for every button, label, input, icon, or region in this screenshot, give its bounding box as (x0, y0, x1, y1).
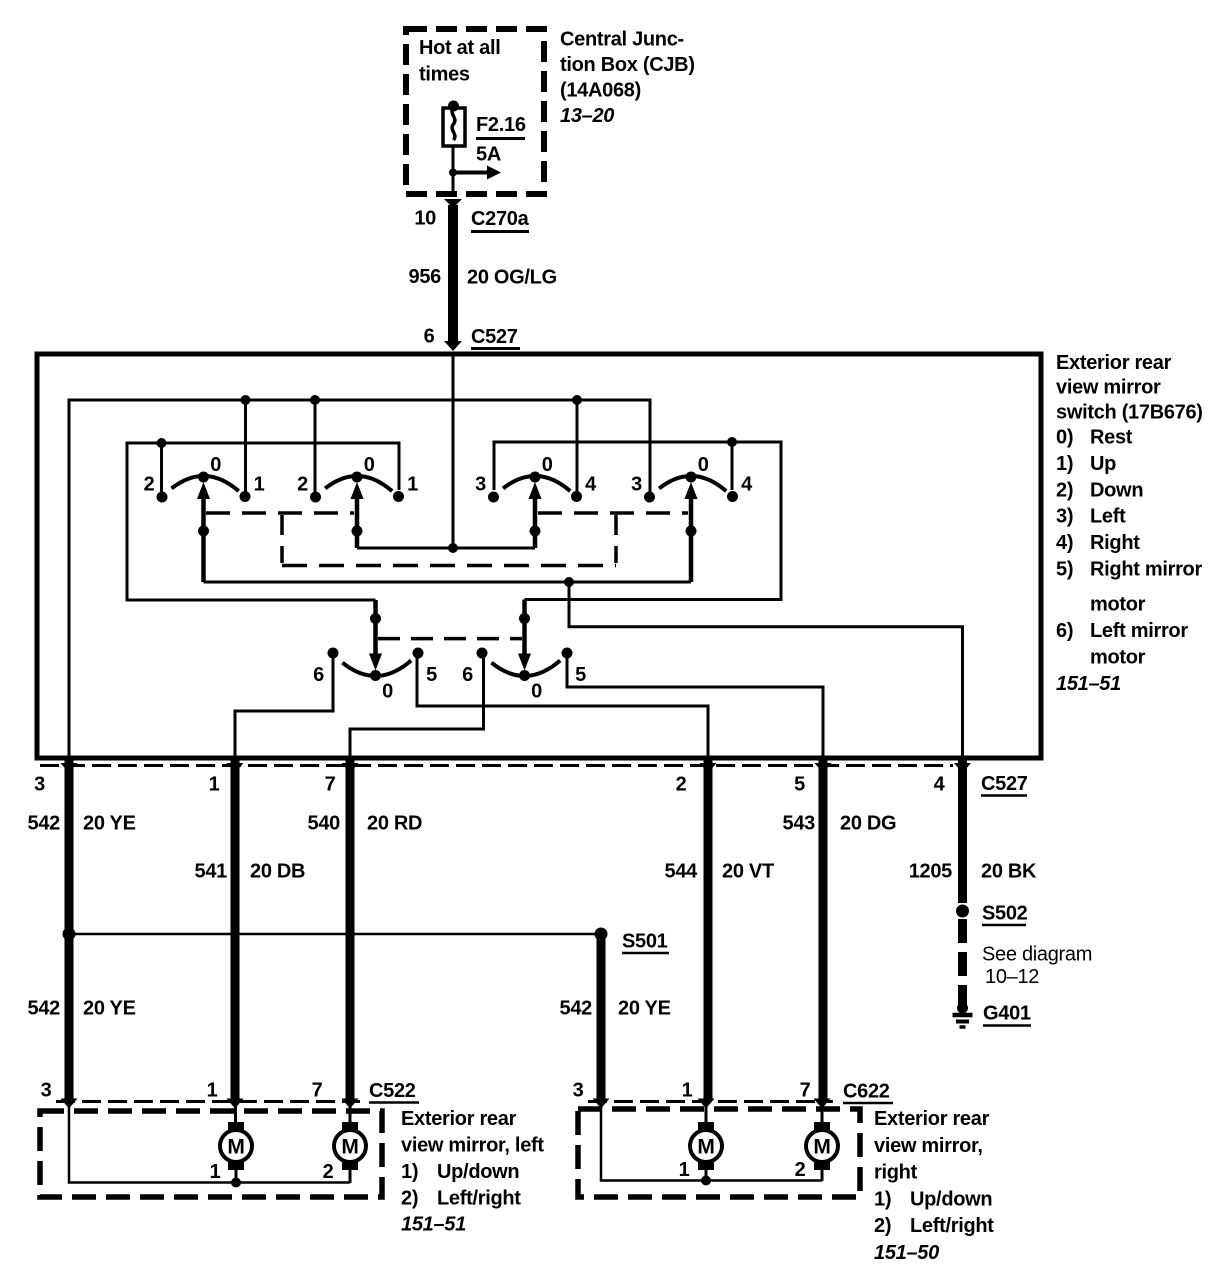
svg-text:S501: S501 (622, 931, 668, 953)
svg-text:2: 2 (795, 1159, 806, 1181)
svg-text:view mirror,: view mirror, (874, 1135, 983, 1157)
wire: C527 pin 6 feed inside box (452, 354, 455, 548)
svg-text:1: 1 (682, 1080, 693, 1102)
svg-text:0): 0) (1056, 427, 1073, 449)
connector C522 (dashed line) (56, 1100, 360, 1103)
svg-text:0: 0 (531, 681, 542, 703)
svg-text:20 VT: 20 VT (722, 861, 774, 883)
wire: riser to SW3 right contact (576, 400, 579, 492)
svg-text:Left mirror: Left mirror (1090, 620, 1188, 642)
svg-text:1: 1 (679, 1159, 690, 1181)
svg-text:Left/right: Left/right (910, 1215, 994, 1237)
selector arrow/shaft at x=375.5 (369, 654, 382, 671)
wire dashed to ground (958, 919, 967, 1005)
wire 542 20 YE (S501 to C622 pin 3) (597, 934, 606, 1099)
svg-text:Right mirror: Right mirror (1090, 559, 1202, 581)
svg-text:switch (17B676): switch (17B676) (1056, 402, 1203, 424)
svg-text:6: 6 (462, 664, 473, 686)
svg-text:0: 0 (542, 454, 553, 476)
svg-text:13–20: 13–20 (560, 105, 614, 127)
svg-text:Right: Right (1090, 532, 1140, 554)
svg-text:C527: C527 (471, 326, 518, 348)
wire: SW6 contact 5 to pin 5 (567, 658, 823, 758)
svg-text:C522: C522 (369, 1080, 416, 1102)
svg-text:1: 1 (207, 1080, 218, 1102)
svg-text:2: 2 (297, 474, 308, 496)
pin 5 wire at C527 (815, 763, 832, 773)
motor M at x=822 (814, 1122, 830, 1132)
wire: riser to SW1 left contact (160, 443, 163, 492)
svg-text:Central Junc-: Central Junc- (560, 29, 684, 51)
svg-text:Up/down: Up/down (437, 1161, 519, 1183)
svg-text:7: 7 (800, 1080, 811, 1102)
wire: riser to SW4 right contact (731, 442, 734, 490)
svg-text:M: M (813, 1136, 830, 1159)
svg-text:4: 4 (741, 474, 753, 496)
exterior rear view mirror, right (dashed box) (578, 1109, 860, 1197)
svg-text:542: 542 (28, 998, 61, 1020)
svg-text:6: 6 (313, 664, 324, 686)
svg-text:7: 7 (325, 774, 336, 796)
svg-text:4: 4 (585, 474, 597, 496)
motor M at x=706 (698, 1122, 714, 1132)
pin 7 at C522 (342, 1099, 359, 1109)
mechanical linkage (dashed) upper paddles (206, 511, 354, 515)
pin 1 wire at C527 (227, 763, 244, 773)
svg-text:3: 3 (34, 774, 45, 796)
wire: SW2/SW3 shaft tie with C527 feed (357, 547, 535, 550)
svg-text:G401: G401 (983, 1003, 1031, 1025)
svg-text:Rest: Rest (1090, 427, 1133, 449)
arrow: feed to other circuits (right) (453, 171, 487, 175)
exterior rear view mirror switch box (37, 354, 1041, 758)
wire: C622 pin 3 to motor commons (601, 1106, 822, 1181)
svg-text:20 YE: 20 YE (83, 998, 136, 1020)
exterior rear view mirror, left (dashed box) (40, 1111, 382, 1197)
svg-text:(14A068): (14A068) (560, 80, 641, 102)
svg-text:7: 7 (312, 1080, 323, 1102)
svg-text:10–12: 10–12 (985, 966, 1039, 988)
svg-text:C527: C527 (981, 773, 1028, 795)
wire: pin 1 to motor 1 (234, 1106, 237, 1122)
svg-text:Left: Left (1090, 506, 1126, 528)
svg-text:1: 1 (210, 1161, 221, 1183)
svg-text:20 DB: 20 DB (250, 861, 305, 883)
svg-text:20 YE: 20 YE (83, 813, 136, 835)
svg-text:Up/down: Up/down (910, 1188, 992, 1210)
wire: SW5 contact 6 to pin 1 (235, 658, 333, 758)
svg-text:1: 1 (254, 474, 265, 496)
svg-text:2: 2 (676, 774, 687, 796)
svg-text:M: M (227, 1136, 244, 1159)
Central Junction Box (dashed box, hot at all times) (406, 29, 544, 194)
pin 3 wire at C527 (61, 763, 78, 773)
svg-text:1): 1) (874, 1188, 891, 1210)
connector C527 (dashed line) (40, 764, 953, 767)
svg-text:1): 1) (1056, 453, 1073, 475)
svg-text:Exterior rear: Exterior rear (401, 1108, 517, 1130)
selector switch wiper arc (6-0-5) at x=524.5 (484, 656, 565, 676)
svg-text:4): 4) (1056, 532, 1073, 554)
wire: bus3 (SW1/SW4 shaft tie) (204, 581, 692, 584)
svg-text:2): 2) (1056, 479, 1073, 501)
switch arrow/shaft at x=357 (351, 482, 364, 499)
motor M at x=236 (228, 1122, 244, 1132)
svg-text:F2.16: F2.16 (476, 114, 526, 136)
svg-text:5: 5 (794, 774, 805, 796)
wire: bus3 branch to pin 4 (569, 582, 963, 758)
svg-text:2): 2) (874, 1215, 891, 1237)
switch arrow/shaft at x=691 (685, 482, 698, 499)
svg-text:M: M (697, 1136, 714, 1159)
wire: pin 7 to motor 2 (349, 1106, 352, 1122)
motor M at x=350 (342, 1122, 358, 1132)
wire 541 20 DB (pin 1) (231, 758, 240, 1099)
svg-text:1): 1) (401, 1161, 418, 1183)
pin 7 wire at C527 (342, 763, 359, 773)
wire: SW6 contact 6 to pin 7 (350, 658, 484, 758)
svg-text:3: 3 (41, 1080, 52, 1102)
svg-text:20 BK: 20 BK (981, 861, 1037, 883)
svg-text:151–51: 151–51 (1056, 673, 1121, 695)
svg-text:20 DG: 20 DG (840, 813, 896, 835)
svg-text:542: 542 (560, 998, 593, 1020)
svg-text:Exterior rear: Exterior rear (874, 1108, 990, 1130)
svg-text:M: M (341, 1136, 358, 1159)
svg-text:times: times (419, 64, 470, 86)
pin 1 at C622 (698, 1099, 715, 1109)
wire: riser to SW1 right contact (244, 400, 247, 492)
wire 542 20 YE (pin 3) (65, 758, 74, 1099)
svg-text:See diagram: See diagram (982, 944, 1092, 966)
svg-text:C622: C622 (843, 1081, 890, 1103)
svg-text:1205: 1205 (909, 861, 952, 883)
svg-text:Left/right: Left/right (437, 1187, 521, 1209)
svg-text:6: 6 (424, 326, 435, 348)
svg-text:tion Box (CJB): tion Box (CJB) (560, 54, 695, 76)
svg-text:motor: motor (1090, 647, 1146, 669)
svg-text:0: 0 (698, 454, 709, 476)
svg-text:2: 2 (323, 1161, 334, 1183)
svg-text:0: 0 (382, 681, 393, 703)
svg-text:20 YE: 20 YE (618, 998, 671, 1020)
svg-text:956: 956 (409, 266, 442, 288)
splice S502 (956, 905, 969, 918)
connector C622 (dashed line) (588, 1100, 833, 1103)
svg-text:0: 0 (210, 454, 221, 476)
connector C270a arrow (444, 199, 462, 208)
svg-text:20 OG/LG: 20 OG/LG (467, 267, 557, 289)
svg-text:Hot at all: Hot at all (419, 37, 500, 59)
svg-text:5): 5) (1056, 559, 1073, 581)
pin 3 at C622 (593, 1099, 610, 1109)
wire: bus2-right (494, 442, 781, 600)
svg-text:541: 541 (195, 861, 228, 883)
svg-text:3: 3 (631, 474, 642, 496)
svg-text:3: 3 (573, 1080, 584, 1102)
wire: bus1 (pin 3 common) (69, 400, 650, 758)
svg-text:542: 542 (28, 813, 61, 835)
pin 1 at C522 (227, 1099, 244, 1109)
svg-text:151–50: 151–50 (874, 1242, 939, 1264)
fuse F2.16 5A (448, 101, 459, 112)
switch wiper arc (3-0-4) at x=691 (652, 476, 731, 495)
svg-text:10: 10 (414, 208, 436, 230)
wire: SW5 contact 5 to pin 2 (417, 658, 708, 758)
svg-text:S502: S502 (982, 903, 1028, 925)
switch arrow/shaft at x=203.5 (197, 482, 210, 499)
svg-text:4: 4 (934, 774, 946, 796)
wire: pin 7 to motor 2 (right) (821, 1106, 824, 1122)
svg-text:3: 3 (475, 474, 486, 496)
svg-text:6): 6) (1056, 620, 1073, 642)
svg-text:0: 0 (364, 454, 375, 476)
svg-text:C270a: C270a (471, 208, 530, 230)
svg-text:motor: motor (1090, 594, 1146, 616)
svg-text:151–51: 151–51 (401, 1214, 466, 1236)
wire 956 20 OG/LG (thick) (448, 205, 458, 342)
wire 540 20 RD (pin 7) (346, 758, 355, 1099)
pin 3 at C522 (61, 1099, 78, 1109)
svg-text:right: right (874, 1162, 918, 1184)
switch arrow/shaft at x=535 (529, 482, 542, 499)
wire: pin 1 to motor 1 (right) (705, 1106, 708, 1122)
pin 7 at C622 (814, 1099, 831, 1109)
connector C527 entry arrow (444, 341, 462, 351)
svg-text:Exterior rear: Exterior rear (1056, 352, 1172, 374)
selector arrow/shaft at x=524.5 (518, 654, 531, 671)
pin 4 wire at C527 (954, 763, 971, 773)
svg-text:5: 5 (575, 664, 586, 686)
mechanical linkage (dashed) selector (378, 637, 522, 641)
svg-text:3): 3) (1056, 506, 1073, 528)
wire: fuse down to box bottom (452, 146, 455, 196)
wire 543 20 DG (pin 5) (819, 758, 828, 1099)
svg-text:544: 544 (665, 861, 699, 883)
wire: bus2-left (127, 443, 399, 600)
switch wiper arc (2-0-1) at x=203.5 (164, 476, 243, 495)
svg-text:view mirror, left: view mirror, left (401, 1135, 544, 1157)
svg-text:Down: Down (1090, 479, 1143, 501)
svg-text:1: 1 (209, 774, 220, 796)
svg-text:2: 2 (144, 474, 155, 496)
switch wiper arc (3-0-4) at x=535 (496, 476, 575, 495)
svg-text:1: 1 (407, 474, 418, 496)
wire 1205 20 BK (pin 4) (958, 758, 967, 903)
svg-text:540: 540 (308, 813, 341, 835)
ground G401 (957, 1003, 968, 1014)
selector switch wiper arc (6-0-5) at x=375.5 (335, 656, 416, 676)
pin 2 wire at C527 (700, 763, 717, 773)
wire: C522 pin 3 to motor commons (69, 1106, 350, 1183)
wire: riser to SW2 left contact (314, 400, 317, 492)
svg-text:5A: 5A (476, 144, 501, 166)
svg-text:Up: Up (1090, 453, 1116, 475)
svg-text:2): 2) (401, 1187, 418, 1209)
splice S501 (69, 933, 601, 936)
switch wiper arc (2-0-1) at x=357 (318, 476, 397, 495)
svg-text:20 RD: 20 RD (367, 813, 422, 835)
svg-text:543: 543 (783, 813, 816, 835)
svg-text:view mirror: view mirror (1056, 377, 1161, 399)
svg-text:5: 5 (426, 664, 437, 686)
wire 544 20 VT (pin 2) (704, 758, 713, 1099)
